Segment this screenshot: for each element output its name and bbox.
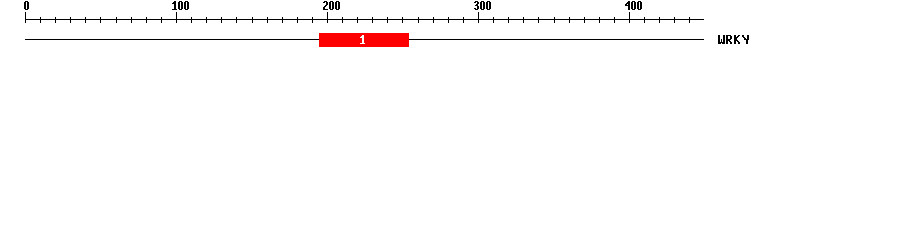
minor ticks (every 10 residues) <box>41 17 690 23</box>
major tick 400 <box>629 12 630 23</box>
ruler label 100 <box>172 1 189 10</box>
ruler label 400 <box>625 1 642 10</box>
ruler label 200 <box>323 1 340 10</box>
ruler label 300 <box>474 1 491 10</box>
domain name WRKY <box>718 35 749 44</box>
major tick 0 <box>25 12 26 23</box>
ruler label 0 <box>24 1 29 10</box>
domain box 1 (WRKY domain) <box>319 33 409 47</box>
sequence line left segment <box>25 39 319 40</box>
ruler line <box>25 19 704 20</box>
sequence line right segment <box>409 39 704 40</box>
major tick 200 <box>327 12 328 23</box>
major tick 300 <box>478 12 479 23</box>
major tick 100 <box>176 12 177 23</box>
domain number 1 <box>360 35 365 44</box>
